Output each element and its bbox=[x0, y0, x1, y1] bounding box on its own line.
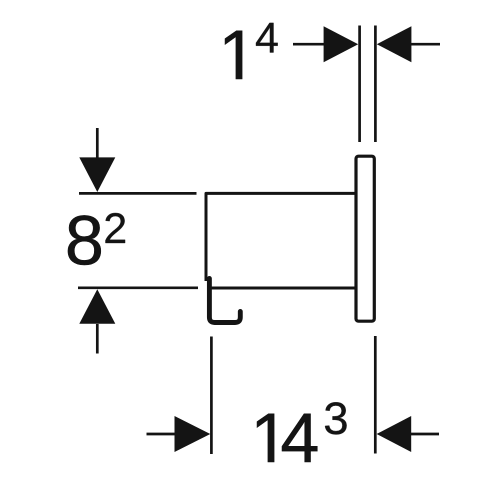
dimension 1-4: left extension line bbox=[358, 26, 361, 143]
bracket body top and left outline bbox=[206, 193, 356, 281]
dimension 14-3: right arrow with tail bbox=[377, 416, 412, 452]
dimension 8-2: top extension line bbox=[79, 192, 197, 195]
dimension 8-2: label digit 8 bbox=[68, 215, 101, 265]
dimension 8-2: bottom arrow with tail bbox=[79, 289, 115, 324]
dimension 14-3: right extension line bbox=[374, 336, 377, 454]
dimension 8-2: superscript 2 bbox=[105, 213, 125, 243]
hook (thick J-profile) bbox=[209, 279, 240, 323]
dimension 14-3: superscript 3 bbox=[325, 402, 347, 434]
bracket body bottom line bbox=[208, 287, 357, 290]
dimension 14-3: label digit 1 bbox=[257, 414, 274, 462]
dimension 14-3: left arrow with tail bbox=[147, 433, 177, 436]
wall plate (vertical flange) bbox=[356, 156, 374, 321]
dimension 14-3: left extension line bbox=[210, 337, 213, 455]
dimension 1-4: right extension line bbox=[374, 26, 377, 143]
dimension 1-4: right arrow with tail bbox=[377, 26, 412, 62]
dimension 1-4: superscript 4 bbox=[256, 23, 278, 53]
dimension 1-4: label digit 1 bbox=[225, 31, 242, 79]
dimension 8-2: bottom extension line bbox=[78, 286, 198, 289]
dimension 8-2: top arrow with tail bbox=[96, 128, 99, 158]
dimension 14-3: label digit 4 bbox=[282, 414, 317, 462]
dimension 1-4: left arrow with tail bbox=[293, 43, 326, 46]
